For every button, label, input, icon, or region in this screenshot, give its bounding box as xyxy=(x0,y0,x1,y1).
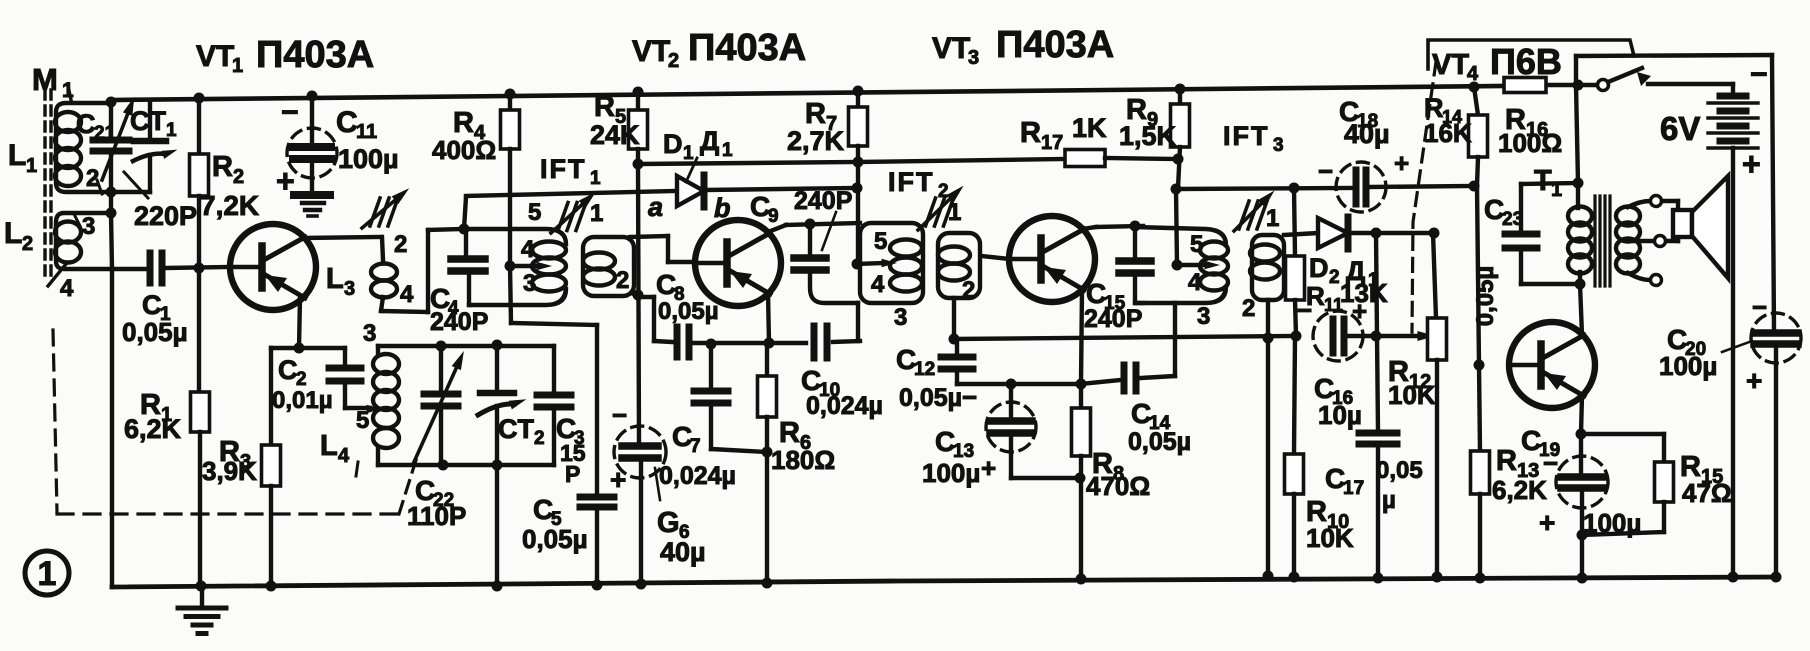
node T1 top xyxy=(1573,178,1584,189)
wire AGC line right xyxy=(1105,158,1178,159)
resistor R11 xyxy=(1286,188,1305,336)
node VT1 emitter xyxy=(294,343,305,354)
transformer T1 core xyxy=(1595,196,1610,286)
node VT4 emitter xyxy=(1576,429,1587,440)
svg-text:6,2K: 6,2K xyxy=(1492,475,1547,505)
label battery plus xyxy=(1742,146,1761,182)
resistor R14 xyxy=(1469,87,1488,186)
svg-text:9: 9 xyxy=(768,206,779,227)
svg-text:7: 7 xyxy=(690,436,701,457)
capacitor C21 xyxy=(93,95,139,180)
node R3 bus xyxy=(266,581,277,592)
svg-text:0,05µ: 0,05µ xyxy=(522,524,588,554)
pin 3 label xyxy=(74,213,95,240)
svg-text:IFT: IFT xyxy=(888,167,935,197)
capacitor C14 xyxy=(1124,365,1136,391)
tuning core IFT3 xyxy=(1234,187,1278,231)
wire VT4 collector xyxy=(1580,284,1582,335)
label C16 xyxy=(1314,373,1362,430)
wire top supply rail xyxy=(112,85,1578,100)
wire left vertical xyxy=(111,213,112,587)
svg-text:16K: 16K xyxy=(1424,118,1472,148)
svg-text:VT: VT xyxy=(196,40,234,73)
pin labels IFT2 secondary xyxy=(948,199,975,304)
label 220P xyxy=(124,172,197,231)
node CT2 top xyxy=(492,340,503,351)
resistor R7 xyxy=(849,91,868,264)
diode D1 xyxy=(677,175,856,207)
capacitor C15 xyxy=(1119,226,1151,303)
svg-text:5: 5 xyxy=(528,199,541,226)
svg-text:5: 5 xyxy=(356,407,369,434)
label R6 xyxy=(771,417,835,475)
trimmer CT1 xyxy=(133,141,179,161)
label C21 xyxy=(76,109,116,144)
wire C21 branch xyxy=(109,103,113,213)
wire C8 feed xyxy=(638,297,672,342)
transistor VT2 xyxy=(695,220,781,306)
svg-text:1: 1 xyxy=(590,168,601,189)
pin 4 tick xyxy=(48,264,66,286)
svg-text:2: 2 xyxy=(962,277,975,304)
svg-text:T: T xyxy=(1534,165,1552,197)
switch SA1 xyxy=(1578,68,1733,91)
node C16 right xyxy=(1371,331,1382,342)
node G6 bus xyxy=(636,579,647,590)
label L3 pin4 xyxy=(400,281,414,308)
label C23 xyxy=(1472,194,1523,326)
resistor R12 potentiometer xyxy=(1428,233,1447,577)
label C18 polarity xyxy=(1318,148,1409,186)
svg-text:C: C xyxy=(336,106,358,139)
svg-text:−: − xyxy=(1297,295,1312,325)
svg-text:3: 3 xyxy=(968,47,979,69)
label G6 polarity xyxy=(610,400,627,495)
capacitor C10 xyxy=(814,326,827,358)
node C20 bus xyxy=(1771,572,1782,583)
svg-text:21: 21 xyxy=(94,123,116,144)
svg-text:4: 4 xyxy=(871,271,885,298)
node R5 bottom xyxy=(633,159,644,170)
label L1 xyxy=(8,139,37,177)
label CT2 xyxy=(498,414,545,449)
node C22 top xyxy=(436,341,447,352)
capacitor C16 electrolytic xyxy=(1313,311,1363,361)
node R16 right xyxy=(1573,80,1584,91)
svg-text:3: 3 xyxy=(1197,303,1210,330)
tuning core IFT2 xyxy=(918,182,967,230)
resistor R13 xyxy=(1471,365,1490,578)
node C15 top xyxy=(1130,221,1141,232)
label IFT3 xyxy=(1223,121,1284,156)
pin labels IFT2 primary xyxy=(871,228,907,331)
node VT3 emitter xyxy=(1076,379,1087,390)
svg-text:2: 2 xyxy=(394,231,407,258)
resistor R3 xyxy=(262,348,281,586)
label L2 xyxy=(4,217,33,255)
wire top right xyxy=(1576,55,1774,331)
capacitor C2 xyxy=(329,368,361,381)
label a b xyxy=(648,192,731,223)
svg-text:10µ: 10µ xyxy=(1318,400,1362,430)
wire tank bottom xyxy=(378,463,554,467)
svg-text:3: 3 xyxy=(1273,135,1284,156)
node CT2 bus xyxy=(492,581,503,592)
svg-text:a: a xyxy=(648,192,663,222)
wire emitter to R3 xyxy=(271,346,299,350)
node R11 top xyxy=(1289,183,1300,194)
node C13-R8 xyxy=(1075,473,1086,484)
svg-text:−: − xyxy=(281,96,299,129)
wire emitter line xyxy=(957,380,1120,384)
wire R14 to VT4 base xyxy=(1477,186,1479,365)
switch link dashed xyxy=(1412,62,1436,332)
transformer T1 primary xyxy=(1568,183,1592,284)
capacitor C8 xyxy=(677,327,689,357)
svg-text:VT: VT xyxy=(1432,49,1469,81)
resistor R8 xyxy=(1072,384,1091,579)
svg-text:100µ: 100µ xyxy=(922,458,980,488)
resistor R2 xyxy=(190,100,209,268)
wire C2 to L4 tap xyxy=(345,381,382,413)
node D2 out xyxy=(1371,228,1440,239)
tap IFT1 pin4 xyxy=(505,261,553,272)
svg-text:+: + xyxy=(1394,148,1409,178)
svg-text:11: 11 xyxy=(356,121,377,143)
label R14 xyxy=(1424,93,1472,148)
svg-text:6V: 6V xyxy=(1660,110,1700,147)
svg-text:1,5K: 1,5K xyxy=(1119,121,1177,151)
wire AF line xyxy=(954,336,1296,339)
svg-text:7,2K: 7,2K xyxy=(200,190,259,221)
label C12 xyxy=(896,344,977,412)
label M1 xyxy=(32,62,74,102)
node battery bus xyxy=(1728,572,1739,583)
pin labels IFT3 primary xyxy=(1188,231,1210,330)
resistor R17 xyxy=(1065,150,1105,167)
svg-text:4: 4 xyxy=(1467,63,1479,85)
svg-text:1: 1 xyxy=(683,143,694,164)
svg-text:−: − xyxy=(612,400,627,430)
svg-text:100µ: 100µ xyxy=(1659,351,1717,381)
tap IFT2 pin4 xyxy=(852,259,898,270)
wire CT2 to bus xyxy=(495,465,499,586)
pin 1 tick xyxy=(68,86,71,100)
node C21 bottom xyxy=(106,187,117,198)
pin labels IFT3 secondary xyxy=(1242,205,1279,322)
svg-text:240P: 240P xyxy=(794,187,852,215)
transistor VT3 xyxy=(1009,216,1095,302)
capacitor C4 xyxy=(451,229,485,305)
transformer IFT1 primary xyxy=(464,229,566,305)
node rail-R5 xyxy=(633,87,644,98)
node R1 bus xyxy=(196,581,207,592)
resistor R15 xyxy=(1581,434,1674,535)
svg-text:−: − xyxy=(1752,292,1767,322)
label R15 xyxy=(1680,451,1732,508)
capacitor C13 electrolytic xyxy=(986,384,1080,478)
svg-text:+: + xyxy=(610,464,626,495)
svg-text:3: 3 xyxy=(363,320,376,347)
capacitor C20 electrolytic xyxy=(1751,313,1801,577)
svg-text:2: 2 xyxy=(534,428,545,449)
svg-text:П403А: П403А xyxy=(688,27,806,69)
svg-text:4: 4 xyxy=(60,275,74,302)
label C15 xyxy=(1084,278,1142,333)
node C5 bus xyxy=(592,580,603,591)
svg-text:40µ: 40µ xyxy=(1344,119,1390,149)
svg-text:CT: CT xyxy=(498,414,534,444)
node R6 bus xyxy=(762,578,773,589)
wire IFT3 pin1 to D2 xyxy=(1284,233,1318,235)
svg-text:2,7K: 2,7K xyxy=(787,126,845,156)
wire C10 right xyxy=(833,341,860,342)
transformer IFT3 primary xyxy=(1134,227,1228,303)
capacitor C1 xyxy=(150,253,162,283)
node C21 top xyxy=(106,97,117,108)
pin 4 label xyxy=(60,275,74,302)
node R13 bus xyxy=(1475,573,1486,584)
wire L2 to C1 xyxy=(112,267,146,271)
wire C1 to base xyxy=(166,267,230,268)
label R17 xyxy=(1020,113,1107,154)
svg-text:3: 3 xyxy=(344,278,355,300)
svg-text:5: 5 xyxy=(1190,231,1203,258)
wire R4 to C5 xyxy=(510,266,597,495)
tuning gang dashed link xyxy=(53,330,416,514)
node IFT3 pin2 bus xyxy=(1263,571,1274,582)
svg-text:+: + xyxy=(1352,296,1367,326)
label C2 xyxy=(272,355,333,414)
label VT3 xyxy=(932,24,1114,69)
capacitor C3 xyxy=(537,346,571,465)
label C1 value xyxy=(122,317,188,347)
svg-text:L: L xyxy=(326,263,344,295)
svg-text:3: 3 xyxy=(894,304,907,331)
label C4 xyxy=(430,283,488,336)
node VT4 base xyxy=(1474,360,1485,371)
label C3 xyxy=(556,413,586,487)
label R5 xyxy=(590,91,640,150)
svg-text:0,05µ: 0,05µ xyxy=(1128,428,1191,456)
label CT1 xyxy=(130,106,177,141)
wire bottom bus xyxy=(112,577,1776,587)
svg-text:3: 3 xyxy=(523,270,536,297)
svg-text:0,01µ: 0,01µ xyxy=(272,387,333,414)
svg-text:C: C xyxy=(142,290,162,320)
svg-text:180Ω: 180Ω xyxy=(771,445,835,475)
wire tank top xyxy=(378,344,554,348)
label C11 polarity xyxy=(276,96,299,199)
node C7-R6 xyxy=(762,447,773,458)
svg-text:240P: 240P xyxy=(430,308,488,336)
svg-text:0,024µ: 0,024µ xyxy=(659,462,736,490)
capacitor C22 xyxy=(414,346,468,465)
svg-text:Д: Д xyxy=(700,126,719,156)
svg-text:4: 4 xyxy=(521,236,535,263)
svg-text:2: 2 xyxy=(616,267,629,294)
inductor L1 xyxy=(55,103,111,192)
svg-text:23: 23 xyxy=(1502,209,1523,230)
ground main xyxy=(178,586,226,634)
wire C8 to emitter xyxy=(694,341,806,345)
transformer IFT2 primary xyxy=(860,223,923,303)
node R9 line xyxy=(1173,154,1184,165)
label C22 xyxy=(407,475,466,531)
svg-text:2: 2 xyxy=(22,233,33,255)
label C18 xyxy=(1339,96,1390,149)
wire C14 to IFT3 xyxy=(1141,303,1175,378)
svg-text:4: 4 xyxy=(338,445,350,467)
capacitor C9 xyxy=(794,224,858,303)
label L3 xyxy=(326,263,355,300)
wire VT2 collector xyxy=(768,223,860,232)
svg-text:−: − xyxy=(1543,448,1558,478)
node C22 bottom xyxy=(438,460,449,471)
node base VT1 xyxy=(194,263,205,274)
node C17 bus xyxy=(1373,573,1384,584)
svg-text:100Ω: 100Ω xyxy=(1498,128,1562,158)
label R10 xyxy=(1306,496,1354,553)
tuning core IFT1 xyxy=(551,188,599,233)
svg-text:1: 1 xyxy=(948,199,961,226)
capacitor C11 xyxy=(287,96,337,195)
wire speaker bottom xyxy=(1666,237,1678,241)
label L4 pin3 xyxy=(363,320,376,347)
transistor VT4 xyxy=(1509,322,1595,408)
label R1 xyxy=(124,389,182,444)
svg-text:P: P xyxy=(565,461,580,487)
wire L3 pin4 xyxy=(381,229,462,312)
svg-text:0,05µ: 0,05µ xyxy=(658,298,719,325)
svg-text:4: 4 xyxy=(1188,269,1202,296)
wire VT3 emitter xyxy=(1081,289,1082,383)
svg-text:470Ω: 470Ω xyxy=(1086,471,1150,501)
label C13 xyxy=(922,426,996,488)
svg-text:VT: VT xyxy=(932,32,970,65)
svg-text:C: C xyxy=(278,355,298,385)
node AF line left xyxy=(949,334,960,345)
svg-text:0,05µ: 0,05µ xyxy=(899,384,962,412)
label G6 xyxy=(655,468,706,567)
resistor R4 xyxy=(501,94,520,266)
capacitor C17 xyxy=(1359,433,1397,578)
capacitor C23 xyxy=(1505,183,1580,284)
wire VT4 emitter xyxy=(1581,395,1582,434)
label D1 xyxy=(663,126,733,182)
svg-text:1: 1 xyxy=(590,200,603,227)
label C8 xyxy=(656,269,719,325)
node C18 right xyxy=(1469,181,1480,192)
wire det line xyxy=(1176,188,1352,189)
svg-text:1: 1 xyxy=(166,120,177,141)
node L2 top xyxy=(106,208,117,219)
terminal sec mid xyxy=(1655,236,1666,247)
wire to C2 xyxy=(299,348,345,366)
node R12 bus xyxy=(1432,572,1443,583)
svg-text:0,024µ: 0,024µ xyxy=(806,392,883,420)
resistor R10 xyxy=(1285,336,1304,577)
node rail-R2 xyxy=(194,93,205,104)
label R3 xyxy=(202,436,257,486)
label R4 xyxy=(432,107,496,165)
node rail-R4 xyxy=(505,89,516,100)
svg-text:+: + xyxy=(1746,365,1762,396)
ground C11 xyxy=(294,195,330,216)
terminal sec top xyxy=(1651,196,1662,207)
node rail-R7 xyxy=(853,86,864,97)
label C20 xyxy=(1659,324,1752,381)
label IFT2 xyxy=(888,167,949,202)
svg-text:+: + xyxy=(1539,507,1555,538)
svg-text:2: 2 xyxy=(1329,267,1340,288)
wire speaker top xyxy=(1662,201,1678,212)
wire IFT3 pin2 down xyxy=(1266,300,1270,576)
node R9 diode line xyxy=(1171,184,1182,195)
node VT2 emitter xyxy=(764,338,775,349)
label R13 xyxy=(1492,445,1547,505)
svg-text:0,05: 0,05 xyxy=(1376,457,1423,484)
label L4 xyxy=(320,430,358,476)
label T1 xyxy=(1534,165,1562,201)
label battery minus xyxy=(1750,58,1768,91)
node C19 bus xyxy=(1577,573,1588,584)
capacitor C19 electrolytic xyxy=(1556,434,1608,578)
pin labels IFT1 primary xyxy=(521,199,541,297)
svg-text:0,05µ: 0,05µ xyxy=(1472,266,1499,327)
node T1 bottom xyxy=(1575,279,1586,290)
capacitor C5 xyxy=(580,497,614,585)
label R12 xyxy=(1388,356,1436,410)
svg-text:П403А: П403А xyxy=(996,24,1114,66)
svg-text:2: 2 xyxy=(1242,295,1255,322)
wire IFT2 pin3 xyxy=(856,303,860,341)
svg-text:D: D xyxy=(663,129,683,159)
svg-text:5: 5 xyxy=(874,228,887,255)
transistor VT1 xyxy=(230,224,316,310)
svg-text:10K: 10K xyxy=(1306,523,1354,553)
node R10 bus xyxy=(1289,572,1300,583)
terminal sec bottom xyxy=(1651,275,1662,286)
transformer IFT3 secondary xyxy=(1250,235,1284,300)
label VT1 xyxy=(196,34,374,77)
label C7 xyxy=(659,421,736,490)
svg-text:100µ: 100µ xyxy=(338,144,399,174)
node rail-R9 xyxy=(1175,84,1186,95)
node IFT1 pin2 xyxy=(633,290,644,301)
label C1 xyxy=(142,290,171,325)
svg-text:24K: 24K xyxy=(590,120,640,150)
capacitor C7 xyxy=(694,344,767,452)
capacitor C12 xyxy=(941,339,973,384)
wire IFT1 pin1 to VT2 base xyxy=(630,236,695,262)
wire R5 down xyxy=(638,164,639,444)
svg-text:1: 1 xyxy=(1551,179,1562,201)
label C14 xyxy=(1128,398,1191,456)
label VT2 xyxy=(632,27,806,72)
label R16 xyxy=(1498,104,1562,158)
wire VT3 collector xyxy=(1082,226,1143,229)
label C5 xyxy=(522,494,588,554)
node rail-R14 xyxy=(1469,82,1480,93)
svg-text:П403А: П403А xyxy=(256,34,374,76)
label R7 xyxy=(787,98,845,156)
label L3 pin2 xyxy=(394,231,407,258)
node C4 top xyxy=(459,224,470,235)
label C11 xyxy=(336,106,399,174)
diode D2 xyxy=(1318,217,1433,249)
label C19 xyxy=(1521,425,1641,538)
